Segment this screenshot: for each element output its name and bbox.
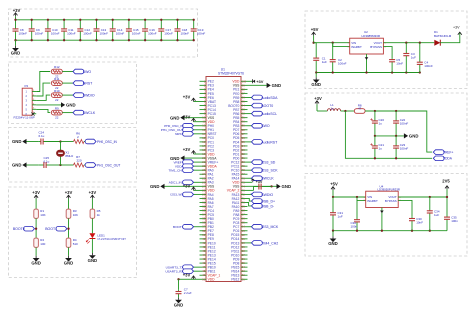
svg-text:+3V: +3V	[183, 115, 191, 120]
capacitor C12 100nF	[77, 20, 92, 40]
capacitor C34 1uF	[427, 197, 440, 231]
svg-text:10K: 10K	[73, 213, 78, 217]
no-connect pin 6	[31, 112, 34, 115]
svg-text:22: 22	[55, 98, 59, 102]
wire	[62, 94, 73, 96]
svg-text:BOOT1: BOOT1	[45, 227, 57, 231]
svg-text:STM32F407VGT6: STM32F407VGT6	[218, 71, 244, 75]
junction	[31, 19, 33, 21]
svg-text:17-21/T1D-CP2R1TY/3T: 17-21/T1D-CP2R1TY/3T	[97, 237, 126, 241]
svg-text:100nF: 100nF	[148, 31, 157, 35]
svg-text:NRST: NRST	[175, 132, 184, 136]
svg-text:P2: P2	[25, 84, 29, 88]
svg-text:100nF: 100nF	[164, 31, 173, 35]
group box: boot config and LED	[9, 187, 137, 278]
wire	[35, 247, 37, 255]
U1 left pins 1-50 (stubs, numbers, names)	[200, 79, 221, 281]
group box: SWD debug	[9, 62, 137, 124]
wire	[68, 247, 70, 255]
net label SWCLK	[73, 110, 84, 115]
net label SWDIO	[73, 93, 84, 98]
ground	[15, 40, 17, 46]
svg-text:8MHz: 8MHz	[65, 154, 73, 158]
junction	[67, 228, 69, 230]
junction node VDDA	[344, 110, 346, 112]
svg-text:I2S3_SCK: I2S3_SCK	[261, 169, 278, 173]
net label VREF+	[433, 150, 444, 155]
net label VREF+	[192, 161, 200, 163]
svg-text:BOOT1: BOOT1	[173, 225, 184, 229]
ground	[22, 139, 26, 144]
svg-text:+5V: +5V	[330, 182, 338, 187]
junction	[144, 19, 146, 21]
svg-text:100: 100	[40, 242, 45, 246]
net label I2S3_SCK	[248, 169, 252, 171]
svg-text:GND: GND	[174, 302, 184, 307]
junction	[63, 19, 65, 21]
svg-text:100nF: 100nF	[197, 31, 206, 35]
net label SWCLK	[248, 177, 252, 179]
svg-text:BYPASS: BYPASS	[370, 45, 382, 49]
+3V power at VDD pin75	[248, 181, 253, 183]
+5V power	[313, 32, 315, 35]
svg-text:GND: GND	[66, 103, 76, 108]
svg-text:1k: 1k	[97, 213, 101, 217]
resistor R9 22	[51, 106, 62, 119]
resistor R3 10K	[66, 209, 78, 218]
group box: VDDA / VREF filter	[305, 93, 467, 166]
ground at VSS pin74	[248, 185, 277, 187]
svg-text:PB12: PB12	[231, 278, 239, 282]
capacitor C11 100nF	[61, 20, 76, 40]
capacitor C30 10nF	[409, 216, 423, 231]
svg-text:6.1u: 6.1u	[44, 159, 50, 163]
svg-text:LD39050PUR33R: LD39050PUR33R	[378, 188, 400, 192]
junction	[176, 19, 178, 21]
ground	[68, 256, 70, 258]
wire VREF rail	[365, 111, 432, 152]
wire	[16, 19, 194, 21]
capacitor C16 100nF	[142, 20, 157, 40]
resistor R8 47	[354, 104, 365, 114]
svg-text:PZ254V-11-06P: PZ254V-11-06P	[14, 116, 35, 120]
svg-text:100nF: 100nF	[400, 122, 409, 126]
junction	[47, 19, 49, 21]
net label PH1_OSC_OUT	[85, 163, 96, 168]
ground	[35, 256, 37, 258]
svg-text:+3V: +3V	[453, 25, 460, 29]
wire inhibit tie	[357, 197, 366, 200]
svg-text:+3V: +3V	[32, 190, 40, 195]
wire input rail	[314, 42, 350, 44]
svg-text:I2S3_MCK: I2S3_MCK	[261, 225, 279, 229]
junction	[79, 19, 81, 21]
net label USART3_TX	[192, 266, 200, 268]
net label BOOT1	[192, 226, 200, 228]
resistor R6 2	[74, 131, 85, 143]
wire	[35, 218, 37, 238]
svg-text:1uF: 1uF	[411, 56, 416, 60]
svg-text:10nF: 10nF	[396, 62, 403, 66]
junction	[112, 19, 114, 21]
svg-text:GND: GND	[328, 241, 338, 246]
+3V power at VDD pin11	[194, 121, 200, 123]
+3V power at VDD pin100	[248, 80, 253, 82]
U1 right pins 100-51 (stubs, numbers, names)	[227, 79, 248, 281]
group box: 3.3V regulator	[305, 11, 467, 89]
svg-text:+3V: +3V	[89, 190, 97, 195]
svg-text:SWO: SWO	[261, 124, 270, 128]
net label I2S3_WS	[192, 193, 200, 195]
ground	[404, 133, 408, 138]
svg-text:GND: GND	[409, 134, 419, 139]
svg-text:INHIBIT: INHIBIT	[367, 199, 378, 203]
svg-text:SWCLK: SWCLK	[261, 177, 274, 181]
wire input rail	[333, 196, 366, 198]
wire pin1 to R12	[36, 72, 50, 92]
ground	[22, 162, 26, 167]
svg-text:LD3985M33R: LD3985M33R	[362, 34, 381, 38]
resistor R7 220	[74, 155, 85, 167]
+3V power	[68, 195, 70, 198]
group box: crystal oscillator	[9, 128, 137, 183]
capacitor C31 1uF	[330, 197, 343, 231]
junction	[160, 19, 162, 21]
resistor R5 1k	[90, 209, 101, 218]
wire pin5 to R9	[36, 109, 50, 112]
svg-text:GND: GND	[150, 184, 160, 189]
wire bypass	[398, 200, 412, 216]
capacitor C21 1u	[370, 136, 384, 158]
svg-text:100nF: 100nF	[132, 31, 141, 35]
svg-text:1uF: 1uF	[322, 60, 327, 64]
svg-text:I2S3_SD: I2S3_SD	[261, 161, 275, 165]
capacitor C23 100nF	[393, 136, 408, 158]
+3V power at VDD pin28	[194, 189, 200, 191]
svg-text:1uF: 1uF	[434, 213, 439, 217]
net label BOOT1	[56, 226, 67, 231]
net label NRST	[73, 81, 84, 86]
svg-text:GND: GND	[11, 51, 21, 56]
svg-text:SWCLK: SWCLK	[83, 111, 96, 115]
svg-text:100nF: 100nF	[338, 62, 347, 66]
svg-text:100nF: 100nF	[19, 31, 28, 35]
junction	[193, 19, 195, 21]
svg-text:R12: R12	[54, 65, 60, 69]
svg-text:100nF: 100nF	[100, 31, 109, 35]
svg-text:100nF: 100nF	[51, 31, 60, 35]
net label SWO	[248, 125, 252, 127]
svg-text:BAT60JFILM: BAT60JFILM	[434, 34, 452, 38]
wire	[62, 112, 73, 114]
svg-text:BOOT0: BOOT0	[261, 104, 273, 108]
capacitor C9 100nF	[29, 20, 44, 40]
svg-text:+3V: +3V	[314, 96, 322, 101]
net label BOOT0	[248, 105, 252, 107]
svg-text:100nF: 100nF	[35, 31, 44, 35]
svg-text:GND: GND	[282, 184, 292, 189]
capacitor C10 100nF	[45, 20, 60, 40]
capacitor C4 100nF	[417, 43, 433, 73]
svg-text:1u: 1u	[379, 122, 383, 126]
capacitor C2 100nF	[330, 43, 347, 73]
wire bottom rail	[333, 230, 447, 232]
wire	[62, 82, 73, 84]
capacitor C15 100nF	[126, 20, 141, 40]
resistor R1 10K	[34, 209, 46, 218]
+3V power	[35, 195, 37, 198]
capacitor C8 100nF	[13, 20, 28, 40]
+3V power	[15, 13, 17, 16]
resistor R4 510	[66, 238, 78, 247]
wire inhibit tie	[333, 43, 350, 47]
wire	[61, 164, 74, 166]
capacitor C13 100nF	[94, 20, 109, 40]
svg-text:100n: 100n	[451, 219, 458, 223]
svg-text:GND: GND	[88, 258, 98, 263]
wire to +3V	[440, 32, 460, 43]
+3V power at VDD pin50	[194, 278, 200, 280]
svg-text:VREF+: VREF+	[443, 151, 454, 155]
svg-text:USART3_RX: USART3_RX	[165, 269, 183, 273]
capacitor C17 100nF	[158, 20, 173, 40]
junction	[14, 19, 16, 21]
net label USART3_RX	[192, 270, 200, 272]
svg-text:R9: R9	[55, 106, 59, 110]
net label I2S3_SD	[248, 161, 252, 163]
svg-text:LED1: LED1	[97, 233, 105, 237]
net label PH1_OSC_OUT	[192, 129, 200, 131]
wire pin2 to R11	[36, 83, 50, 96]
net label VDDA	[192, 165, 200, 167]
wire VCAP branch	[179, 278, 194, 280]
capacitor C1 1uF	[313, 43, 327, 73]
svg-text:220: 220	[76, 159, 81, 163]
wire	[68, 218, 70, 238]
svg-text:+3V: +3V	[183, 183, 191, 188]
wire pin4 to GND	[36, 104, 61, 106]
ground at VSSA pin20	[185, 157, 200, 159]
svg-text:SWO: SWO	[83, 70, 92, 74]
wire	[84, 164, 88, 166]
ground	[61, 102, 65, 107]
capacitor C5 10nF	[389, 58, 403, 72]
net label SWO	[73, 69, 84, 74]
LED LED1 17-21/T1D-CP2R1TY/3T	[86, 233, 126, 243]
ground	[332, 231, 334, 237]
svg-text:I2S3_WS: I2S3_WS	[170, 193, 183, 197]
net label AudioSDA	[248, 96, 252, 98]
svg-text:100nF: 100nF	[400, 147, 409, 151]
inductor L1 1u	[327, 103, 340, 111]
junction node OSC_OUT	[59, 164, 61, 166]
+3V power	[459, 31, 461, 33]
svg-text:R10: R10	[54, 89, 60, 93]
resistor R11 22	[51, 77, 62, 90]
capacitor C19 100nF	[191, 20, 206, 40]
svg-text:100nF: 100nF	[181, 31, 190, 35]
svg-text:+3V: +3V	[183, 272, 191, 277]
junction	[35, 228, 37, 230]
capacitor C35 100n	[444, 197, 458, 231]
wire	[341, 110, 355, 112]
svg-text:R11: R11	[54, 77, 60, 81]
junction	[95, 19, 97, 21]
junction node OSC_IN	[59, 140, 61, 142]
ground at VSS pin27	[165, 185, 200, 187]
svg-text:2V5: 2V5	[442, 179, 450, 184]
svg-text:100n: 100n	[351, 225, 358, 229]
svg-text:NRST: NRST	[83, 82, 93, 86]
resistor R12 22	[51, 65, 62, 78]
svg-text:AudioRST: AudioRST	[261, 140, 278, 144]
net label SWDIO	[248, 193, 252, 195]
svg-text:100nF: 100nF	[83, 31, 92, 35]
net label I2S3_MCK	[248, 226, 252, 228]
wire VDDA rail	[345, 111, 432, 158]
capacitor C22 100nF	[393, 111, 408, 136]
wire	[84, 141, 88, 143]
svg-text:10nF: 10nF	[416, 221, 423, 225]
svg-text:USB_D+: USB_D+	[261, 199, 275, 203]
ground	[91, 253, 93, 255]
svg-text:+3V: +3V	[183, 147, 191, 152]
wire GND rail	[375, 135, 404, 137]
svg-text:47: 47	[358, 107, 362, 111]
svg-text:BOOT0: BOOT0	[13, 227, 25, 231]
net label AudioRST	[248, 141, 252, 143]
svg-text:VDD: VDD	[208, 278, 216, 282]
+3V power at VDD pin19	[194, 153, 200, 155]
net label BOOT0	[24, 226, 35, 231]
svg-text:GND: GND	[272, 83, 282, 88]
2V5 power	[446, 186, 448, 189]
ground	[315, 73, 317, 78]
svg-text:100nF: 100nF	[67, 31, 76, 35]
svg-text:VDDA: VDDA	[443, 157, 453, 161]
capacitor C24 6.1u	[38, 130, 60, 144]
svg-text:1uF: 1uF	[338, 215, 343, 219]
group box: decoupling capacitors	[9, 9, 198, 57]
resistor R10 22	[51, 89, 62, 102]
resistor R2 100	[34, 238, 46, 247]
capacitor C14 100nF	[110, 20, 125, 40]
svg-text:+3V: +3V	[256, 180, 263, 184]
regulator U2 LD3985M33R	[347, 30, 386, 54]
svg-text:INHIBIT: INHIBIT	[351, 45, 362, 49]
wire	[27, 141, 39, 143]
capacitor C20 1u	[370, 111, 384, 136]
svg-text:SWDIO: SWDIO	[83, 94, 95, 98]
svg-text:TIM1_CH1: TIM1_CH1	[169, 168, 184, 172]
svg-text:+3V: +3V	[183, 95, 191, 100]
svg-text:510: 510	[73, 242, 78, 246]
svg-text:10K: 10K	[40, 213, 45, 217]
svg-text:AudioSCL: AudioSCL	[261, 112, 277, 116]
ground at VSS pin99	[248, 84, 267, 86]
diode D1 BAT60JFILM	[434, 30, 452, 46]
svg-text:+3V: +3V	[256, 79, 264, 84]
crystal X1 8MHz	[57, 142, 74, 166]
wire pin3 to R10	[36, 95, 50, 100]
svg-text:GND: GND	[12, 139, 22, 144]
wire bottom rail	[316, 72, 420, 74]
wire VOUT rail	[398, 196, 447, 198]
svg-text:100: 100	[242, 79, 247, 83]
net label TIM4_CH2	[248, 242, 252, 244]
U2 ground pin	[366, 54, 368, 73]
svg-text:GND: GND	[170, 115, 180, 120]
capacitor C3 1uF	[403, 43, 416, 73]
wire VOUT rail	[383, 42, 434, 44]
capacitor C25 6.1u	[38, 156, 60, 168]
regulator U4 LD39050PUR33R	[363, 184, 401, 207]
net label ADC1_IN1	[192, 181, 200, 183]
svg-text:+5V: +5V	[311, 27, 319, 32]
+5V power	[332, 187, 334, 190]
svg-text:AudioSDA: AudioSDA	[261, 96, 278, 100]
svg-text:GND: GND	[12, 163, 22, 168]
svg-text:ADC1_IN1: ADC1_IN1	[169, 181, 184, 185]
svg-text:2.2uF: 2.2uF	[183, 291, 192, 295]
svg-text:+3V: +3V	[65, 190, 73, 195]
svg-text:+3V: +3V	[13, 8, 21, 13]
wire	[317, 110, 327, 112]
svg-text:100nF: 100nF	[424, 64, 433, 68]
group box: 2.5V regulator	[305, 174, 467, 257]
wire	[27, 164, 39, 166]
wire	[91, 218, 93, 233]
+3V power	[91, 195, 93, 198]
svg-text:GND: GND	[311, 82, 321, 87]
+3V power	[316, 101, 318, 104]
wire	[61, 141, 74, 143]
net label NRST	[192, 133, 200, 135]
U4 ground pin	[381, 208, 383, 231]
wire bypass	[383, 47, 392, 59]
junction	[312, 42, 314, 44]
svg-text:SWDIO: SWDIO	[261, 193, 273, 197]
svg-text:22: 22	[55, 115, 59, 119]
net label USB_D-	[248, 203, 252, 206]
svg-text:1u: 1u	[330, 106, 334, 110]
MCU U1 STM32F407VGT6	[206, 68, 244, 282]
ground at VSS pin10	[185, 117, 200, 119]
svg-text:BYPASS: BYPASS	[385, 199, 397, 203]
net label AudioSCL	[248, 113, 252, 115]
svg-text:GND: GND	[64, 261, 74, 266]
net label USB_D+	[248, 198, 252, 201]
+3V power at VBAT	[194, 101, 200, 103]
capacitor C6 2.2uF at VCAP_2	[248, 184, 272, 196]
svg-text:GND: GND	[31, 261, 41, 266]
svg-text:TIM4_CH2: TIM4_CH2	[261, 241, 278, 245]
ground	[178, 298, 180, 300]
net label PH0_OSC_IN	[85, 139, 96, 144]
svg-text:PH1_OSC_OUT: PH1_OSC_OUT	[97, 163, 120, 167]
wire	[91, 239, 93, 253]
capacitor C7 2.2uF	[176, 287, 192, 297]
net label TIM1_CH1	[192, 169, 200, 171]
capacitor C18 100nF	[175, 20, 190, 40]
svg-text:6.1u: 6.1u	[39, 134, 45, 138]
svg-text:USB_D-: USB_D-	[261, 204, 275, 208]
svg-text:PH0_OSC_IN: PH0_OSC_IN	[97, 140, 118, 144]
svg-text:100nF: 100nF	[116, 31, 125, 35]
svg-text:1u: 1u	[379, 147, 383, 151]
wire	[62, 71, 73, 73]
net label PH0_OSC_IN	[192, 125, 200, 127]
